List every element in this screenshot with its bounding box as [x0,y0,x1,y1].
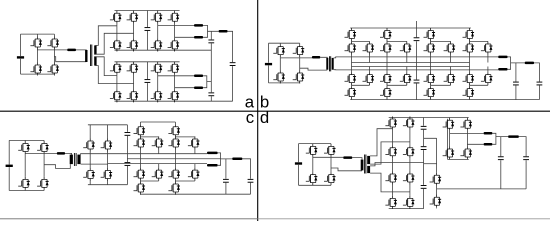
inductor Lf2_a [194,36,203,39]
transistor Q10b [363,72,375,85]
wire d bridge return to primary [331,168,362,171]
wire d module left rail [447,119,449,160]
wire c middle bridge rails [88,125,128,185]
wire d input bridge rails [299,144,332,186]
wire a bridge output to Lk [37,49,67,51]
wire c bridge legs [25,140,44,190]
capacitor Co2_d [523,156,529,160]
divider vertical line [257,0,259,221]
transistor Q3a [30,63,42,76]
bottom border line [0,218,258,220]
inductor Lo3_d [508,135,519,138]
capacitor Cb2_a [145,79,151,83]
wire c aux link upper 1 [141,137,159,154]
transistor Q20c [188,168,200,181]
wire a top group leg 2 [133,11,135,52]
wire c output cap branch [225,159,227,194]
wire a secondary1 bottom lead [95,33,133,54]
wire a bottom group leg 1 [116,62,118,102]
capacitor Cf3_d [421,185,427,189]
capacitor Co_a [230,62,236,66]
transistor Q16b [400,72,412,85]
transformer T_c [70,155,73,165]
wire d chain link [424,138,437,208]
inductor Lo2_b [498,68,507,71]
wire c bus 1 [90,153,207,155]
wire b aux link upper 2 [387,41,407,62]
transistor Q5a [110,11,122,24]
wire a output rail bottom [232,66,234,101]
inductor Lk_c [57,152,65,155]
transistor Q10c [134,137,146,150]
wire b input source leads [268,43,270,83]
transistor Q2b [293,44,305,57]
transistor Q14b [380,86,392,99]
capacitor Co2_b [537,82,543,86]
transistor Q4d [324,172,336,185]
inductor Lo1_b [498,56,507,59]
wire a bottom group leg 3 [157,62,159,102]
transistor Q12d [403,196,415,209]
wire d cell leg 2 [409,117,411,209]
inductor Lo1_d [484,132,493,135]
wire a bridge legs [37,34,54,75]
wire d chain tap [424,163,437,165]
wire c bridge return to primary [44,164,70,168]
inductor Lf3_a [194,75,203,78]
transformer T_a [85,50,87,62]
transistor Q3d [306,172,318,185]
wire b flying-cap link [416,21,418,100]
transistor Q20b [424,86,436,99]
wire b output stage bottom rail [350,99,539,101]
wire c cells bottom rail [141,193,251,195]
transistor Q19b [424,72,436,85]
wire c cells top rail [141,121,176,123]
wire a top group L junction [203,25,219,37]
wire c Lk to primary [65,153,72,154]
wire b aux link lower 4 [470,67,488,86]
wire a bottom group L junction [203,76,211,88]
wire a output rail top [228,31,233,62]
wire c secondary bottom lead [81,163,108,165]
wire b aux link lower 1 [352,67,370,86]
wire c secondary top lead [81,153,91,156]
transformer T_b [326,58,328,70]
transistor Q16a [168,62,180,75]
wire b aux link lower 3 [431,67,451,86]
wire b mid bus 1 [352,62,470,64]
transistor Q27b [481,42,493,55]
wire a top group leg 4 [174,11,176,52]
transistor Q18b [424,42,436,55]
transistor Q12c [134,182,146,195]
DC source Vin_d [295,162,302,164]
wire c input bridge rails [9,140,44,190]
divider horizontal line [0,110,550,112]
transistor Q14c [152,168,164,181]
wire d cell leg 1 [391,117,393,209]
capacitor Co2_c [248,179,254,183]
wire a top group leg 1 [116,11,118,52]
inductor Lo1_c [207,152,218,155]
wire d module bottom rail [448,158,469,160]
inductor Lo3_b [525,62,534,65]
wire d top rail [389,117,469,119]
transistor Q6b [345,42,357,55]
transistor Q6d [385,145,397,158]
wire c bus 2 [127,158,220,160]
transistor Q25b [463,72,475,85]
inductor Lo1_a [219,30,228,33]
transistor Q18a [127,89,139,102]
transistor Q6a [127,11,139,24]
wire a bottom group upper rail [115,61,180,63]
wire a Lk to primary [76,49,86,51]
capacitor Cf1_b [414,37,420,41]
capacitor Cf2_d [421,146,427,150]
wire b leg 3 [430,28,432,100]
transistor Q4b [293,71,305,84]
transistor Q10a [127,38,139,51]
transformer T_d [361,160,364,171]
transistor Q15b [400,42,412,55]
wire a bottom group lower rail [115,100,233,102]
wire d secondary2 bottom lead [370,173,410,192]
transistor Q11a [151,38,163,51]
transistor Q7c [83,168,95,181]
capacitor Cc2_c [125,162,131,166]
transistor Q1d [306,144,318,157]
wire c output L junction [218,153,233,165]
wire b secondary bottom bus [334,69,499,71]
transistor Q17d [443,147,455,160]
wire b output L junction [508,57,525,69]
transistor Q19a [151,89,163,102]
transistor Q13d [430,173,442,186]
capacitor Co1_b [513,82,519,86]
wire c middle bridge legs [90,125,107,185]
wire a top group upper rail [115,10,180,12]
wire d input source leads [298,144,300,186]
transistor Q26b [463,86,475,99]
wire a secondary1 top lead [95,26,117,46]
transistor Q11c [134,168,146,181]
wire a top group center-cap link [146,11,148,51]
wire b aux link upper 3 [431,41,451,62]
wire b aux link upper 1 [352,41,370,62]
transistor Q5c [83,139,95,152]
wire a top group phase A out [158,24,194,26]
wire c input source leads [8,140,10,190]
transistor Q8c [101,168,113,181]
capacitor Cf2_b [414,80,420,84]
inductor Lo2_d [484,143,493,146]
transistor Q9a [110,38,122,51]
transistor Q2c [37,141,49,154]
transistor Q5d [385,117,397,130]
wire b leg 1 [351,28,353,100]
wire c aux link lower 1 [141,164,159,181]
wire b aux link upper 4 [470,41,488,62]
transistor Q5b [345,28,357,41]
transistor Q19c [188,137,200,150]
transistor Q8a [168,11,180,24]
wire a top group leg 3 [157,11,159,52]
wire a bottom group phase A out [158,75,194,77]
inductor Lf1_a [194,24,203,27]
wire c aux link lower 2 [175,164,195,181]
wire d output cap branch [500,137,502,189]
inductor Lo3_c [232,158,242,161]
transistor Q16c [168,137,180,150]
wire d output L junction [492,133,508,144]
transistor Q24b [463,42,475,55]
transistor Q11b [380,28,392,41]
transistor Q23b [463,28,475,41]
transistor Q13a [110,62,122,75]
capacitor Cc1_c [125,132,131,136]
transistor Q1a [30,37,42,50]
wire a input source leads [20,34,22,74]
capacitor Co1_d [498,156,504,160]
wire b mid bus 2 [352,66,470,68]
wire d bottom rail [389,208,424,210]
transistor Q9b [363,42,375,55]
wire d secondary2 top lead [370,163,424,166]
transistor Q8d [385,196,397,209]
capacitor Cm1_a [208,40,214,44]
wire d flying-cap link [423,118,425,209]
wire b output right rail [534,63,539,100]
transistor Q2a [47,37,59,50]
capacitor Co1_c [223,179,229,183]
transistor Q13b [380,72,392,85]
transistor Q4a [47,63,59,76]
transistor Q18d [460,147,472,160]
transistor Q7d [385,172,397,185]
wire a bridge return to primary [54,57,86,62]
wire b output stage top rail [350,27,471,29]
wire c cell leg 2 [174,122,176,195]
transistor Q17c [168,168,180,181]
transistor Q8b [345,86,357,99]
DC source Vin_b [265,63,272,65]
wire b bridge return to primary [300,68,328,70]
transistor Q7b [345,72,357,85]
wire b output cap branch [515,63,517,100]
wire a bottom group phase B out [175,87,194,89]
inductor Lf4_a [194,86,203,89]
transistor Q14d [430,195,442,208]
wire b leg 2 [386,28,388,100]
transistor Q17a [110,89,122,102]
wire d chain output / bottom rail [437,188,526,190]
transistor Q12b [380,42,392,55]
transistor Q20a [168,89,180,102]
transistor Q12a [168,38,180,51]
transistor Q28b [481,72,493,85]
inductor Lk_d [343,156,352,159]
wire d module phase B out [467,143,483,145]
transistor Q9c [134,124,146,137]
transistor Q10d [403,145,415,158]
wire d bridge output to Lk [313,156,343,158]
wire a top group lower rail [115,49,212,51]
wire a mid branch line [210,31,212,101]
wire d output right rail [519,137,526,189]
transistor Q14a [127,62,139,75]
wire d secondary1 bottom lead [370,142,410,164]
wire c aux link upper 2 [175,137,195,154]
wire a top group phase B out [175,36,194,38]
DC source Vin_c [6,165,13,167]
wire b bridge legs [280,43,299,83]
transistor Q3b [273,71,285,84]
wire a input bridge rails [21,34,55,74]
capacitor Cm2_a [208,92,214,96]
wire c bridge output to Lk [25,152,57,154]
transistor Q16d [460,118,472,131]
transistor Q9d [403,117,415,130]
DC source Vin_a [17,56,24,58]
transistor Q22b [444,72,456,85]
wire b leg 4 [469,28,471,100]
wire b aux link lower 2 [387,67,407,86]
transistor Q2d [324,144,336,157]
inductor Lk_a [67,49,76,52]
wire a bottom group center-cap link [146,62,148,101]
wire b Lk to primary [320,56,327,59]
wire a bottom group leg 4 [174,62,176,102]
transistor Q6c [101,139,113,152]
wire d secondary1 top lead [370,129,392,156]
wire c cell leg 1 [140,122,142,195]
transistor Q15a [151,62,163,75]
wire c clamp cap link [126,125,128,185]
wire b bridge output to Lk [280,57,312,59]
wire a bottom group leg 2 [133,62,135,102]
transistor Q21b [444,42,456,55]
transistor Q3c [18,177,30,190]
wire d module legs [450,118,468,160]
transistor Q15c [168,124,180,137]
capacitor Cf1_d [421,126,427,130]
transistor Q17b [424,28,436,41]
wire c bus 3 [108,163,207,165]
transistor Q1c [18,141,30,154]
capacitor Cb1_a [145,27,151,31]
wire d module phase A out [450,133,484,135]
transistor Q13c [152,137,164,150]
wire a secondary2 bottom lead [95,66,133,84]
transistor Q18c [168,182,180,195]
transistor Q1b [273,44,285,57]
wire b input bridge rails [269,43,300,83]
wire a secondary2 top lead [95,57,117,76]
wire d Lk to primary [352,158,362,160]
wire b secondary top bus [334,57,499,58]
transistor Q11d [403,172,415,185]
wire d bridge legs [313,144,331,186]
wire c output right rail [242,159,250,194]
inductor Lo2_c [207,164,218,167]
transistor Q15d [443,118,455,131]
inductor Lk_b [312,56,320,59]
transistor Q7a [151,11,163,24]
transistor Q4c [37,177,49,190]
